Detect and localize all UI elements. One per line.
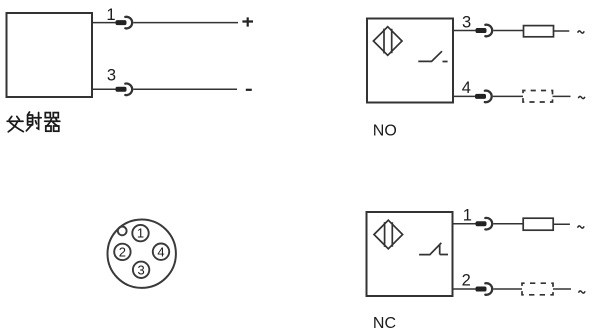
load resistor (solid, NO pin3) — [524, 26, 554, 37]
svg-text:3: 3 — [107, 67, 116, 85]
connector plug pin 4 (NO) — [475, 91, 492, 103]
connector plug pin 2 (NC) — [476, 283, 493, 295]
transmitter box (emitter) — [7, 13, 93, 97]
NO contact switch — [418, 51, 447, 61]
wire pin3 from box to connector — [92, 88, 116, 90]
svg-text:NC: NC — [373, 315, 396, 332]
wire connector to load (NC pin2) — [493, 288, 522, 290]
load resistor (optional dashed, NC pin2) — [522, 283, 553, 295]
wire pin1 NC box to connector — [453, 223, 477, 225]
pin label 4 (NO box) — [462, 79, 471, 97]
svg-text:1: 1 — [137, 226, 144, 241]
NC sensor box — [367, 212, 453, 296]
plus terminal — [242, 17, 253, 26]
pin label 1 (NC box) — [463, 207, 472, 225]
wire load to AC (NO pin4) — [553, 95, 571, 97]
keying notch circle — [118, 227, 127, 236]
svg-text:4: 4 — [157, 244, 164, 259]
wire connector to load (NO pin3) — [493, 30, 523, 32]
connector face view outer circle — [108, 220, 176, 288]
wire load to AC (NC pin1) — [553, 223, 570, 225]
photoelectric sensor symbol (NO box diamond) — [373, 27, 402, 56]
connector pin 2 circle — [114, 244, 130, 260]
wire connector to load (NC pin1) — [493, 223, 523, 225]
photoelectric sensor symbol (NC box diamond) — [374, 220, 403, 249]
label NC — [373, 315, 396, 332]
wire pin1 from box to connector — [92, 22, 116, 24]
connector pin 4 circle — [153, 244, 169, 260]
label NO — [373, 123, 397, 140]
connector plug pin 1 (NC) — [476, 218, 493, 230]
NC contact switch — [419, 243, 448, 255]
wire pin3 from connector to minus — [133, 88, 237, 90]
connector pin 1 circle — [132, 225, 148, 241]
connector plug pin 3 (NO) — [476, 25, 493, 37]
svg-text:1: 1 — [463, 207, 472, 225]
load resistor (optional dashed, NO pin4) — [523, 91, 553, 103]
wire connector to load (NO pin4) — [493, 95, 523, 97]
svg-text:4: 4 — [462, 79, 471, 97]
NO sensor box — [367, 19, 453, 103]
connector plug pin 3 — [116, 84, 133, 96]
label 发射器 (transmitter) — [7, 112, 60, 132]
pin label 2 (NC box) — [462, 271, 471, 289]
AC supply symbol pin2 — [579, 291, 586, 293]
load resistor (solid, NC pin1) — [523, 218, 553, 230]
svg-text:1: 1 — [106, 6, 115, 24]
pin label 1 — [106, 6, 115, 24]
wire pin4 NO box to connector — [453, 95, 476, 97]
svg-text:2: 2 — [119, 245, 126, 260]
connector pin 3 circle — [133, 262, 149, 278]
AC supply symbol pin1 — [578, 226, 585, 228]
svg-text:NO: NO — [373, 123, 397, 140]
wire pin2 NC box to connector — [453, 288, 477, 290]
minus terminal — [246, 89, 252, 91]
connector plug pin 1 — [116, 17, 133, 29]
AC supply symbol pin4 — [578, 96, 585, 98]
svg-text:3: 3 — [137, 262, 144, 277]
pin label 3 — [107, 67, 116, 85]
wire pin1 from connector to plus — [133, 22, 238, 24]
svg-text:2: 2 — [462, 271, 471, 289]
wire load to AC (NO pin3) — [554, 30, 570, 32]
AC supply symbol pin3 — [578, 31, 585, 33]
wire pin3 NO box to connector — [453, 30, 476, 32]
wire load to AC (NC pin2) — [553, 288, 571, 290]
pin label 3 (NO box) — [462, 14, 471, 32]
svg-text:3: 3 — [462, 14, 471, 32]
